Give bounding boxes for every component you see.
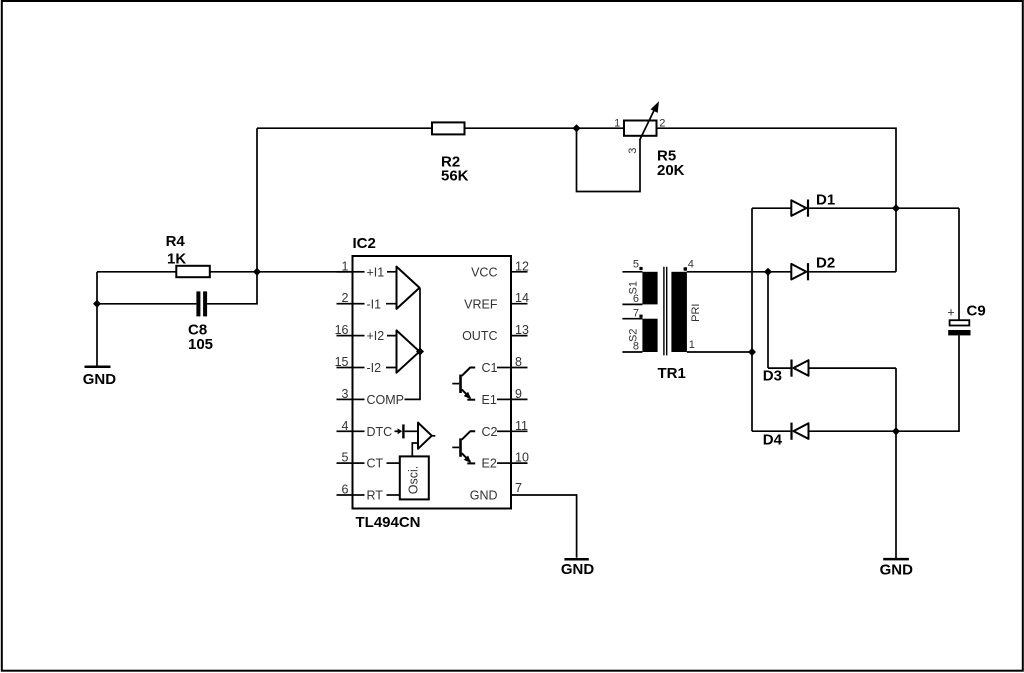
TR1 core xyxy=(664,267,667,356)
wire TR1 pin 1 row xyxy=(687,351,752,353)
transistor Q2 xyxy=(452,431,475,463)
node junction TR1 pin4 / D3 branch xyxy=(764,268,772,276)
wire TR1 pin 4 row to D2 xyxy=(687,271,791,273)
wire top rail right segment down to D1 node xyxy=(657,128,897,208)
svg-text:5: 5 xyxy=(342,451,349,465)
TR1 secondary winding S1 xyxy=(642,272,657,305)
svg-text:+: + xyxy=(947,306,954,320)
wire C8 row left xyxy=(97,303,196,305)
svg-text:DTC: DTC xyxy=(367,425,393,439)
wire branch down to D3 xyxy=(767,272,769,368)
TR1 polarity dot pin 5 xyxy=(639,267,642,270)
wire buffer to oscillator xyxy=(412,443,418,456)
pin 1 stub xyxy=(337,271,353,273)
svg-text:1: 1 xyxy=(614,117,620,129)
pin 13 stub xyxy=(511,335,528,337)
svg-text:OUTC: OUTC xyxy=(462,329,497,343)
svg-text:GND: GND xyxy=(83,371,117,388)
wire D4 node to ground right xyxy=(895,431,897,558)
svg-text:8: 8 xyxy=(515,355,522,369)
diode D4 xyxy=(752,423,896,449)
pin 9 stub xyxy=(511,398,528,400)
TR1 secondary winding S2 xyxy=(642,319,657,352)
pin 10 stub xyxy=(511,462,528,464)
svg-text:COMP: COMP xyxy=(367,393,405,407)
wire left drop from rail xyxy=(256,128,258,272)
svg-text:CT: CT xyxy=(367,457,384,471)
pin 14 stub xyxy=(511,303,528,305)
wire D3 down to D4 node xyxy=(895,368,897,431)
pin 5 stub xyxy=(337,462,353,464)
svg-text:12: 12 xyxy=(515,259,529,273)
svg-text:D1: D1 xyxy=(816,192,835,209)
TR1 polarity dot pin 4 xyxy=(684,267,687,270)
wire amplifier output down to COMP xyxy=(405,288,421,400)
pin label -I2 xyxy=(353,367,365,369)
svg-text:14: 14 xyxy=(515,291,529,305)
pin 4 stub xyxy=(337,430,353,432)
svg-text:GND: GND xyxy=(561,561,595,578)
svg-text:1K: 1K xyxy=(167,251,186,268)
pin 16 stub xyxy=(337,335,353,337)
node junction D1 / rail / D2 riser / C9 xyxy=(892,204,900,212)
svg-text:VREF: VREF xyxy=(464,297,498,311)
node junction R4 / pin1 / rail / C8 xyxy=(253,268,261,276)
wire left branch down to C8 row xyxy=(96,272,98,304)
pin label CT xyxy=(353,462,365,464)
pin label RT xyxy=(353,494,365,496)
svg-text:3: 3 xyxy=(627,148,639,154)
pin label +I1 xyxy=(353,271,365,273)
pin 11 stub xyxy=(511,430,528,432)
svg-text:-I1: -I1 xyxy=(367,297,382,311)
svg-text:S1: S1 xyxy=(628,281,640,294)
TR1 primary winding PRI xyxy=(671,272,687,352)
svg-text:S2: S2 xyxy=(628,329,640,342)
wire C9 bottom return to D4 node xyxy=(896,335,959,431)
TR1 pin 7 wire xyxy=(622,318,642,320)
pin label COMP xyxy=(353,398,365,400)
svg-text:Osci.: Osci. xyxy=(406,466,420,494)
svg-text:10: 10 xyxy=(515,451,529,465)
wire to ground left xyxy=(96,304,98,366)
svg-text:RT: RT xyxy=(367,489,384,503)
resistor R2 xyxy=(432,122,469,184)
svg-text:56K: 56K xyxy=(441,167,469,184)
wire R4 row right to IC pin 1 xyxy=(210,271,353,273)
svg-text:20K: 20K xyxy=(657,162,685,179)
wire top rail middle segment xyxy=(465,127,625,129)
pin 3 stub xyxy=(337,398,353,400)
svg-text:GND: GND xyxy=(470,489,498,503)
diode D3 xyxy=(763,360,896,385)
node junction D4 / D3 / C9 return / GND xyxy=(892,427,900,435)
ground middle xyxy=(561,559,595,578)
svg-text:105: 105 xyxy=(188,336,213,353)
svg-text:5: 5 xyxy=(633,259,639,271)
pin 15 stub xyxy=(337,367,353,369)
svg-text:16: 16 xyxy=(335,323,349,337)
node junction C8 / GND xyxy=(93,300,101,308)
ground right xyxy=(880,559,914,578)
node junction amp2 output xyxy=(416,348,424,356)
resistor R4 xyxy=(166,233,210,277)
pin label +I2 xyxy=(353,335,365,337)
wire D2 riser up to D1 node xyxy=(895,208,897,272)
svg-text:PRI: PRI xyxy=(690,304,702,322)
TR1 pin 5 wire xyxy=(622,271,642,273)
DTC input symbol (arrow and bar) xyxy=(395,424,419,438)
wire CT to oscillator xyxy=(387,462,400,464)
svg-text:E1: E1 xyxy=(482,393,497,407)
wire pin 7 to ground xyxy=(511,495,577,558)
svg-text:1: 1 xyxy=(689,339,695,351)
pin 6 stub xyxy=(337,494,353,496)
svg-text:VCC: VCC xyxy=(471,265,497,279)
capacitor C8 xyxy=(188,291,213,353)
svg-text:4: 4 xyxy=(342,419,349,433)
svg-text:3: 3 xyxy=(342,387,349,401)
transformer TR1 xyxy=(622,259,701,383)
svg-text:1: 1 xyxy=(342,259,349,273)
svg-text:R4: R4 xyxy=(166,233,186,250)
capacitor C9 xyxy=(947,303,985,336)
op-amp U1b error amplifier 2 xyxy=(386,330,420,372)
svg-text:7: 7 xyxy=(633,308,639,320)
svg-text:D4: D4 xyxy=(763,432,783,449)
op-amp U1a error amplifier 1 xyxy=(386,267,420,309)
wire C9 top feed xyxy=(958,208,960,320)
svg-text:2: 2 xyxy=(342,291,349,305)
svg-text:D3: D3 xyxy=(763,368,782,385)
transistor Q1 xyxy=(452,368,475,400)
svg-text:+I1: +I1 xyxy=(367,265,385,279)
wire top rail left segment xyxy=(257,127,432,129)
op-amp IC2 TL494CN box xyxy=(353,235,512,531)
potentiometer R5 xyxy=(614,103,685,179)
svg-text:6: 6 xyxy=(342,483,349,497)
pin 8 stub xyxy=(511,367,528,369)
node junction rail / R5 pin1 loop xyxy=(573,124,581,132)
svg-text:D2: D2 xyxy=(816,254,835,271)
diode D2 xyxy=(791,254,896,280)
svg-text:C9: C9 xyxy=(967,303,986,320)
oscillator block Osci. xyxy=(400,456,429,499)
pin 2 stub xyxy=(337,303,353,305)
svg-text:9: 9 xyxy=(515,387,522,401)
svg-text:7: 7 xyxy=(515,481,522,495)
wire C8 row right up to junction xyxy=(207,272,257,304)
node junction TR1 pin1 on left bus xyxy=(748,348,756,356)
pin label DTC xyxy=(353,430,365,432)
svg-text:TR1: TR1 xyxy=(658,365,686,382)
svg-text:IC2: IC2 xyxy=(353,235,376,252)
svg-text:15: 15 xyxy=(335,355,349,369)
svg-text:4: 4 xyxy=(688,259,694,271)
svg-text:GND: GND xyxy=(880,561,914,578)
svg-text:C2: C2 xyxy=(482,425,498,439)
svg-text:13: 13 xyxy=(515,323,529,337)
wire RT to oscillator xyxy=(387,494,400,496)
svg-text:+I2: +I2 xyxy=(367,329,385,343)
wire left bus D1 to D4 xyxy=(751,208,753,431)
diode D1 xyxy=(752,192,959,217)
svg-text:-I2: -I2 xyxy=(367,361,382,375)
svg-text:E2: E2 xyxy=(482,457,497,471)
wire R4 row left xyxy=(97,271,176,273)
ground left xyxy=(83,367,117,388)
TR1 polarity dot pin 7 xyxy=(639,315,642,318)
TR1 pin 6 wire xyxy=(622,303,642,305)
svg-text:TL494CN: TL494CN xyxy=(356,514,421,531)
dead-time buffer triangle xyxy=(418,423,435,449)
pin label -I1 xyxy=(353,303,365,305)
wire R5 pin3 loop xyxy=(577,128,641,191)
svg-text:C1: C1 xyxy=(482,361,498,375)
svg-text:11: 11 xyxy=(515,419,528,433)
TR1 pin 8 wire xyxy=(622,351,642,353)
pin 12 stub xyxy=(511,271,528,273)
